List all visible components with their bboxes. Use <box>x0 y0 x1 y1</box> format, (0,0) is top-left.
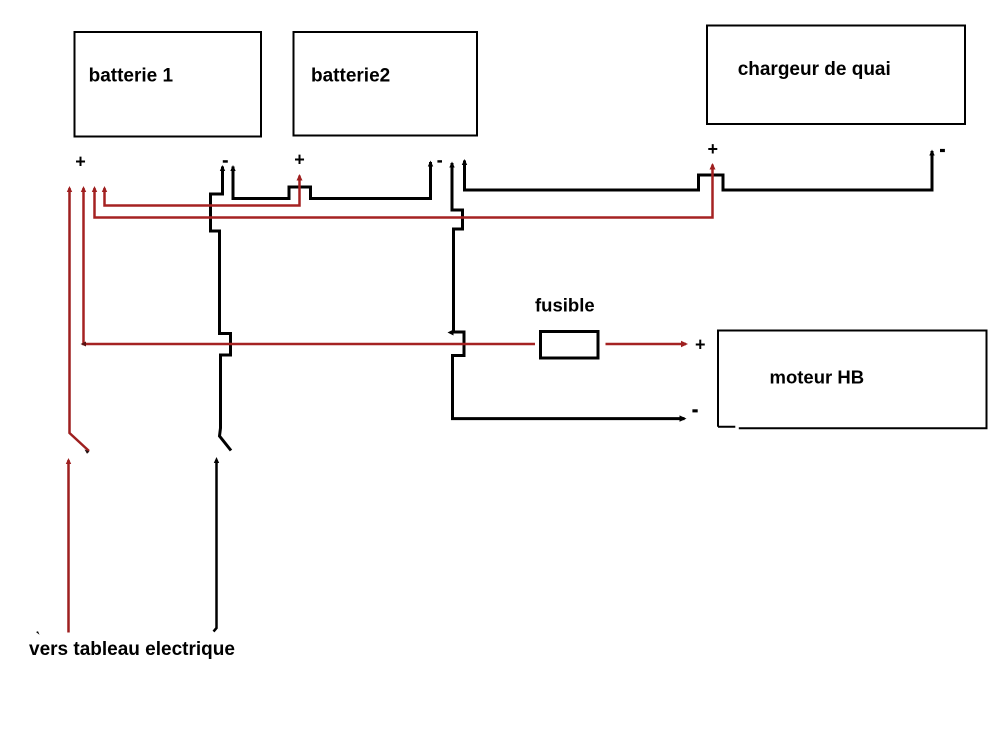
arrowhead charger minus wire top <box>929 150 934 156</box>
arrowhead battery B2 plus wire top <box>297 174 303 181</box>
wire red: fuse to motor plus <box>606 343 687 346</box>
arrowhead red stub 2 <box>81 186 86 192</box>
fuse F1 box <box>541 332 599 359</box>
arrowhead jog corner on motor minus branch <box>448 330 454 336</box>
arrowhead motor minus branch tip <box>449 162 454 168</box>
svg-text:batterie 1: batterie 1 <box>89 65 174 86</box>
battery B1 box <box>75 32 262 137</box>
svg-text:vers tableau electrique: vers tableau electrique <box>29 639 235 660</box>
wire red: battery B1 plus to battery B2 plus <box>105 176 300 206</box>
terminal - of charger <box>940 149 945 152</box>
wire red: battery B1 plus to charger plus <box>95 165 713 218</box>
arrowhead charger plus wire top <box>710 163 716 170</box>
svg-text:+: + <box>294 150 305 170</box>
terminal - of motor <box>692 409 697 412</box>
arrowhead fuse output wire <box>681 341 688 347</box>
battery B2 box <box>294 32 478 136</box>
corner blob on red fuse wire <box>81 342 87 347</box>
svg-text:fusible: fusible <box>535 294 595 315</box>
wire black: battery B1 minus down to switch <box>211 167 232 451</box>
wire black: battery B2 minus down to motor minus <box>452 163 685 419</box>
arrowhead red stub 1 <box>67 186 72 192</box>
wire black: battery B1 minus to battery B2 minus <box>233 162 431 199</box>
arrowhead battery B1 minus wire tip a <box>220 165 225 171</box>
svg-text:+: + <box>695 334 706 354</box>
svg-text:+: + <box>75 152 86 172</box>
terminal - of battery B1 <box>223 160 228 163</box>
tick mark above vers text <box>36 631 40 635</box>
terminal - of battery B2 <box>437 160 442 162</box>
wire red: battery B1 plus to fuse <box>84 188 536 344</box>
svg-text:+: + <box>707 139 718 159</box>
switch S1 lower red lead to panel <box>67 460 70 633</box>
arrowhead motor minus wire end <box>680 415 687 421</box>
arrowhead black tip of switch S1 blade <box>85 450 90 454</box>
switch S2 lower lead black wire to panel <box>214 460 217 632</box>
motor box <box>718 331 987 429</box>
arrowhead battery B2 minus wire tip <box>428 161 433 167</box>
svg-text:batterie2: batterie2 <box>311 65 390 86</box>
wire red: battery B1 plus upper lead to switch S1 <box>70 188 90 451</box>
arrowhead charger minus branch tip <box>462 159 467 165</box>
svg-text:moteur HB: moteur HB <box>770 366 865 387</box>
arrowhead battery B1 minus wire tip b <box>230 165 235 171</box>
arrowhead top of red lower lead <box>66 458 71 464</box>
arrowhead top of black lower lead <box>214 457 219 463</box>
arrowhead red stub 4 <box>102 186 107 192</box>
motor box bottom left segment <box>718 426 735 428</box>
shore charger box <box>707 26 965 125</box>
arrowhead red stub 3 <box>92 186 97 192</box>
wire black: battery B2 minus to charger minus <box>465 151 933 190</box>
svg-text:chargeur de quai: chargeur de quai <box>738 59 891 80</box>
